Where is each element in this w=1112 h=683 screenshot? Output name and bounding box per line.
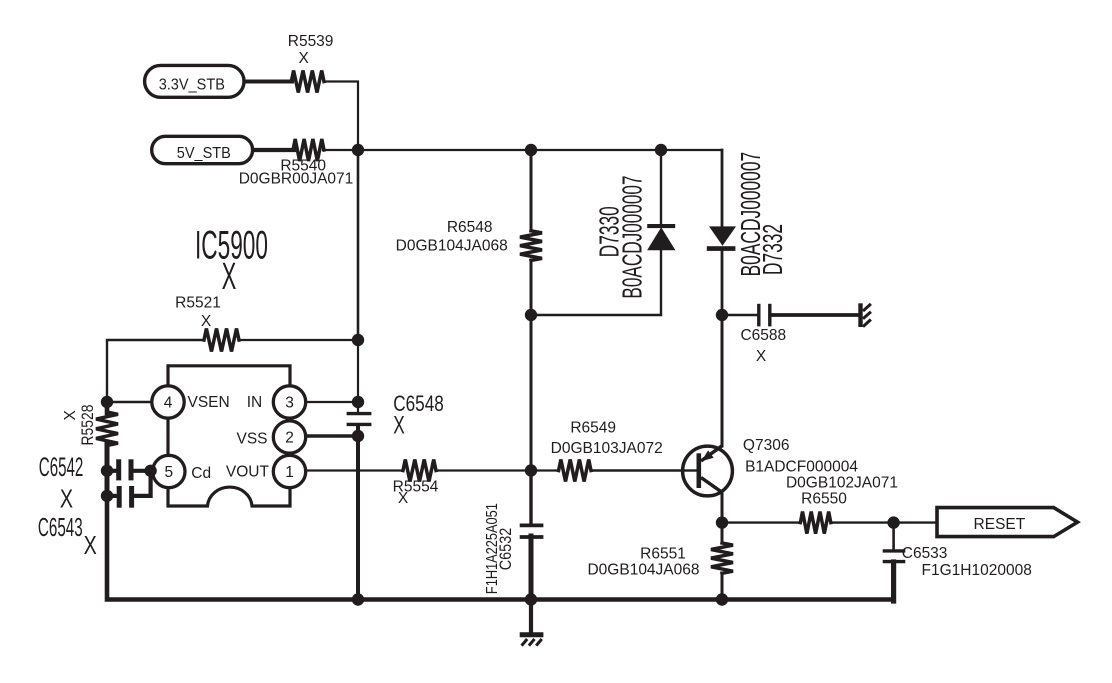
wire pin1 VOUT row bbox=[303, 469, 403, 471]
svg-text:C6542: C6542 bbox=[39, 451, 84, 482]
wire R5521 row bbox=[107, 340, 204, 402]
svg-text:5: 5 bbox=[164, 464, 173, 481]
node junction (893.6,522.6) bbox=[887, 516, 899, 528]
node junction (722,599.5) bbox=[716, 593, 728, 605]
wire D7332 cathode lead bbox=[721, 251, 724, 316]
svg-text:C6588: C6588 bbox=[740, 327, 786, 344]
node junction (531,315) bbox=[525, 309, 537, 321]
pin 3 IN bbox=[273, 386, 305, 418]
wire R6549 leads bbox=[531, 469, 559, 471]
svg-text:3: 3 bbox=[285, 395, 294, 412]
resistor R5554 bbox=[403, 460, 436, 482]
svg-text:X: X bbox=[62, 410, 79, 421]
svg-text:X: X bbox=[299, 50, 310, 67]
wire vertical x358 lower thick bbox=[356, 425, 360, 600]
node 5V_STB terminal bbox=[152, 136, 253, 163]
svg-text:F1G1H1020008: F1G1H1020008 bbox=[922, 562, 1032, 579]
wire x107 R5528 leads bbox=[105, 402, 110, 413]
svg-text:B0ACDJ000007: B0ACDJ000007 bbox=[616, 175, 647, 298]
op-amp U: IC5900 body bbox=[168, 366, 290, 506]
transistor Q7306 bbox=[683, 446, 733, 496]
wire pin4 VSEN bbox=[107, 401, 153, 404]
node junction (661,150) bbox=[655, 144, 667, 156]
node junction (107,470.8) bbox=[101, 465, 113, 477]
wire diode return row bbox=[531, 250, 661, 315]
wire 5V pill stub bbox=[254, 148, 294, 152]
wire C6588 left stub bbox=[722, 314, 757, 316]
svg-text:Cd: Cd bbox=[191, 465, 211, 482]
svg-text:C6532: C6532 bbox=[497, 528, 515, 571]
svg-text:X: X bbox=[60, 484, 73, 513]
node junction (107,495.9) bbox=[101, 490, 113, 502]
svg-text:D0GB104JA068: D0GB104JA068 bbox=[396, 237, 508, 254]
node junction (358,599.5) bbox=[352, 593, 364, 605]
wire ground stub bbox=[529, 600, 533, 633]
node RESET terminal bbox=[937, 508, 1078, 537]
resistor R5539 bbox=[291, 71, 324, 93]
resistor R6549 bbox=[559, 460, 591, 482]
resistor R5521 bbox=[204, 329, 239, 352]
node junction (531,150) bbox=[525, 144, 537, 156]
resistor R5528 bbox=[96, 412, 118, 446]
svg-text:D0GB102JA071: D0GB102JA071 bbox=[786, 475, 898, 492]
node 3.3V_STB terminal bbox=[145, 65, 244, 97]
wire pin3 IN bbox=[303, 401, 358, 403]
svg-text:Q7306: Q7306 bbox=[743, 437, 790, 454]
svg-text:D0GB103JA072: D0GB103JA072 bbox=[551, 440, 663, 457]
svg-text:5V_STB: 5V_STB bbox=[177, 144, 231, 162]
svg-text:C6543: C6543 bbox=[38, 513, 83, 542]
svg-text:R5528: R5528 bbox=[79, 404, 98, 445]
resistor R6551 bbox=[711, 543, 733, 573]
node junction (531,599.5) bbox=[525, 593, 537, 605]
wire to RESET flag bbox=[894, 521, 937, 523]
resistor R5540 bbox=[293, 139, 324, 161]
wire D7332 anode lead bbox=[721, 150, 724, 227]
wire R5539 to vertical bbox=[324, 82, 358, 151]
wire x107 lower to bus bbox=[107, 495, 358, 600]
capacitor C6543 bbox=[117, 486, 122, 508]
svg-text:VSS: VSS bbox=[236, 431, 267, 448]
resistor R6550 bbox=[800, 512, 830, 534]
node junction (531,470.5) bbox=[525, 464, 537, 476]
capacitor C6548 bbox=[347, 412, 372, 415]
wire collector down bbox=[721, 492, 724, 523]
node junction (722,315) bbox=[716, 309, 728, 321]
wire C6533 bottom lead thick bbox=[891, 562, 896, 601]
svg-text:B1ADCF000004: B1ADCF000004 bbox=[745, 459, 858, 476]
wire vertical x358 mid bbox=[357, 340, 359, 413]
svg-text:R6549: R6549 bbox=[570, 420, 616, 437]
svg-text:X: X bbox=[398, 490, 409, 507]
bus bottom bbox=[356, 597, 894, 601]
svg-text:IN: IN bbox=[247, 394, 263, 411]
node junction (358,402) bbox=[352, 396, 364, 408]
svg-text:C6533: C6533 bbox=[902, 545, 948, 562]
node junction (107,402) bbox=[101, 396, 113, 408]
node junction (722,522.6) bbox=[716, 516, 728, 528]
node junction (150.6,470.8) bbox=[144, 465, 156, 477]
chassis ground (right of C6588) bbox=[858, 303, 862, 327]
svg-text:4: 4 bbox=[164, 395, 173, 412]
wire C6588 to chassis thick bbox=[772, 313, 859, 317]
svg-text:D0GB104JA068: D0GB104JA068 bbox=[587, 562, 699, 579]
wire vertical x358 upper bbox=[357, 150, 360, 340]
diode D7332 (pointing down) bbox=[710, 227, 735, 245]
svg-text:R5539: R5539 bbox=[288, 33, 334, 50]
svg-text:RESET: RESET bbox=[974, 516, 1026, 533]
node junction (358,340) bbox=[352, 334, 364, 346]
svg-text:R6550: R6550 bbox=[801, 490, 847, 507]
pin 5 Cd bbox=[153, 455, 185, 487]
wire 5V_STB horizontal rail bbox=[323, 149, 722, 151]
wire x531 below C6532 bbox=[529, 536, 534, 600]
svg-text:X: X bbox=[756, 348, 767, 365]
wire R6550 row bbox=[722, 521, 800, 523]
svg-text:X: X bbox=[201, 313, 212, 330]
pin 2 VSS bbox=[273, 421, 305, 453]
wire x531 to C6532 bbox=[529, 471, 532, 525]
wire C6533 top lead bbox=[892, 523, 895, 550]
wire D7330 cathode lead bbox=[660, 150, 662, 225]
svg-text:VOUT: VOUT bbox=[226, 463, 270, 480]
capacitor C6542 bbox=[116, 459, 121, 480]
svg-text:R5521: R5521 bbox=[175, 294, 221, 311]
svg-text:R6548: R6548 bbox=[447, 219, 493, 236]
node junction (358,436) bbox=[352, 430, 364, 442]
svg-text:X: X bbox=[393, 412, 405, 440]
resistor R6548 bbox=[520, 231, 542, 261]
svg-text:R6551: R6551 bbox=[640, 545, 686, 562]
svg-text:X: X bbox=[222, 255, 237, 298]
ground (bottom, at x531) bbox=[520, 632, 544, 637]
capacitor C6533 bbox=[883, 549, 906, 552]
wire x531 top lead bbox=[530, 150, 533, 231]
wire C6543 stubs bbox=[107, 494, 116, 498]
svg-text:D7332: D7332 bbox=[757, 224, 788, 275]
svg-text:X: X bbox=[84, 531, 97, 560]
pin 4 VSEN bbox=[152, 386, 184, 418]
svg-text:D0GBR00JA071: D0GBR00JA071 bbox=[239, 170, 354, 187]
wire pin2 VSS thick bbox=[303, 434, 358, 438]
diode D7330 (pointing up) bbox=[648, 228, 675, 250]
wire x531 mid bbox=[530, 260, 533, 471]
pin 1 VOUT bbox=[273, 455, 305, 487]
svg-text:1: 1 bbox=[285, 464, 294, 481]
svg-text:3.3V_STB: 3.3V_STB bbox=[159, 76, 225, 94]
wire R6551 leads bbox=[721, 523, 724, 543]
wire x722 emitter vertical bbox=[721, 315, 724, 446]
wire 3.3V pill stub bbox=[245, 80, 292, 84]
svg-text:VSEN: VSEN bbox=[187, 394, 229, 411]
capacitor C6588 bbox=[757, 304, 760, 327]
wire C6542 stubs bbox=[107, 469, 116, 473]
svg-text:2: 2 bbox=[285, 430, 294, 447]
node junction (358,150) bbox=[352, 144, 364, 156]
capacitor C6532 bbox=[520, 524, 544, 528]
